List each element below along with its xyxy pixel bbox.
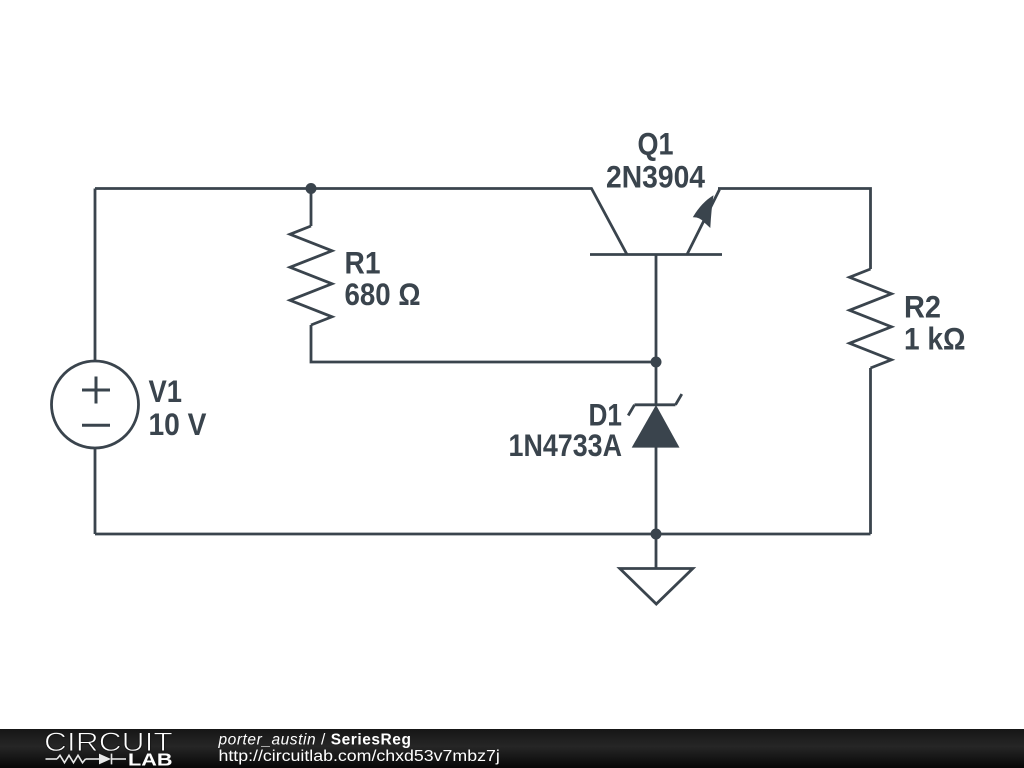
svg-text:V1: V1 <box>149 373 183 409</box>
svg-text:10 V: 10 V <box>149 406 207 442</box>
svg-text:1N4733A: 1N4733A <box>509 427 623 463</box>
svg-text:680 Ω: 680 Ω <box>345 276 421 312</box>
svg-text:http://circuitlab.com/chxd53v7: http://circuitlab.com/chxd53v7mbz7j <box>219 748 500 765</box>
svg-text:Q1: Q1 <box>638 126 674 162</box>
svg-text:porter_austin / SeriesReg: porter_austin / SeriesReg <box>218 731 412 748</box>
svg-text:2N3904: 2N3904 <box>606 159 705 195</box>
svg-text:LAB: LAB <box>128 749 173 768</box>
svg-text:1 kΩ: 1 kΩ <box>904 321 966 357</box>
svg-text:R2: R2 <box>904 289 941 325</box>
